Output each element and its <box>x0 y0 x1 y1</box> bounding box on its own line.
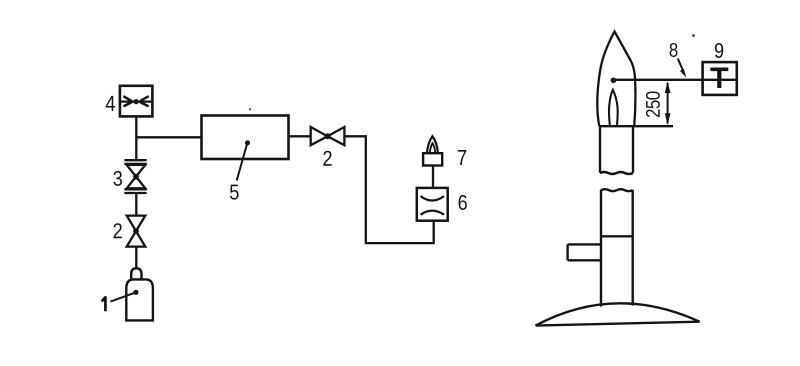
scan speck above label 9 area <box>692 34 695 37</box>
burner rim line extended (dimension reference) <box>600 125 673 127</box>
leader line to label 1 <box>111 293 135 302</box>
valve 2 (horizontal shut-off valve) <box>311 127 345 145</box>
wire flow meter 6 to pilot burner 7 <box>432 166 434 188</box>
burner air inlet side tube <box>568 244 601 260</box>
wire junction to box 5 <box>136 136 202 138</box>
leader line to label 5 <box>237 145 247 181</box>
label 7 <box>458 150 466 165</box>
measurement point dot in flame <box>611 78 617 84</box>
burner base <box>536 303 700 325</box>
scan speck near box 5 <box>249 108 251 110</box>
pilot burner 7 <box>423 153 442 165</box>
thermocouple T symbol <box>710 68 728 72</box>
leader dot inside cylinder 1 <box>133 290 138 295</box>
inner flame <box>609 90 618 127</box>
wire cylinder to valve 2 <box>135 247 137 269</box>
burner upper tube <box>600 126 633 174</box>
label 2 (horizontal valve) <box>323 151 331 166</box>
label 4 <box>106 96 115 111</box>
label 8 <box>670 43 678 57</box>
wire valve 3 to regulator 4 <box>135 116 137 160</box>
pressure regulator 4 <box>120 86 152 117</box>
valve 2 (vertical shut-off valve) <box>127 216 146 247</box>
wire box 5 to valve 2h <box>289 135 312 137</box>
wire valve 2h to flow meter loop <box>344 136 433 243</box>
outer flame <box>597 32 635 127</box>
flow meter 6 (venturi) <box>417 188 448 221</box>
label 2 <box>113 223 121 238</box>
flow controller box 5 <box>202 116 289 160</box>
label 5 <box>230 185 239 200</box>
leader dot inside box 5 <box>245 140 250 145</box>
thermocouple box 9 <box>703 62 737 95</box>
gas cylinder 1 <box>126 268 153 320</box>
wire valve 2 to valve 3 <box>135 193 137 216</box>
leader arrow from label 8 to wire <box>678 59 684 72</box>
label 1 <box>102 297 106 311</box>
valve 3 (flanged valve) <box>124 160 146 193</box>
burner lower tube <box>601 189 633 306</box>
label 6 <box>459 195 467 210</box>
dimension line 250 <box>665 81 671 125</box>
dimension text 250 <box>646 92 660 118</box>
label 9 <box>715 43 723 58</box>
wire flame dot to thermocouple box <box>613 79 736 81</box>
label 3 <box>113 171 122 186</box>
